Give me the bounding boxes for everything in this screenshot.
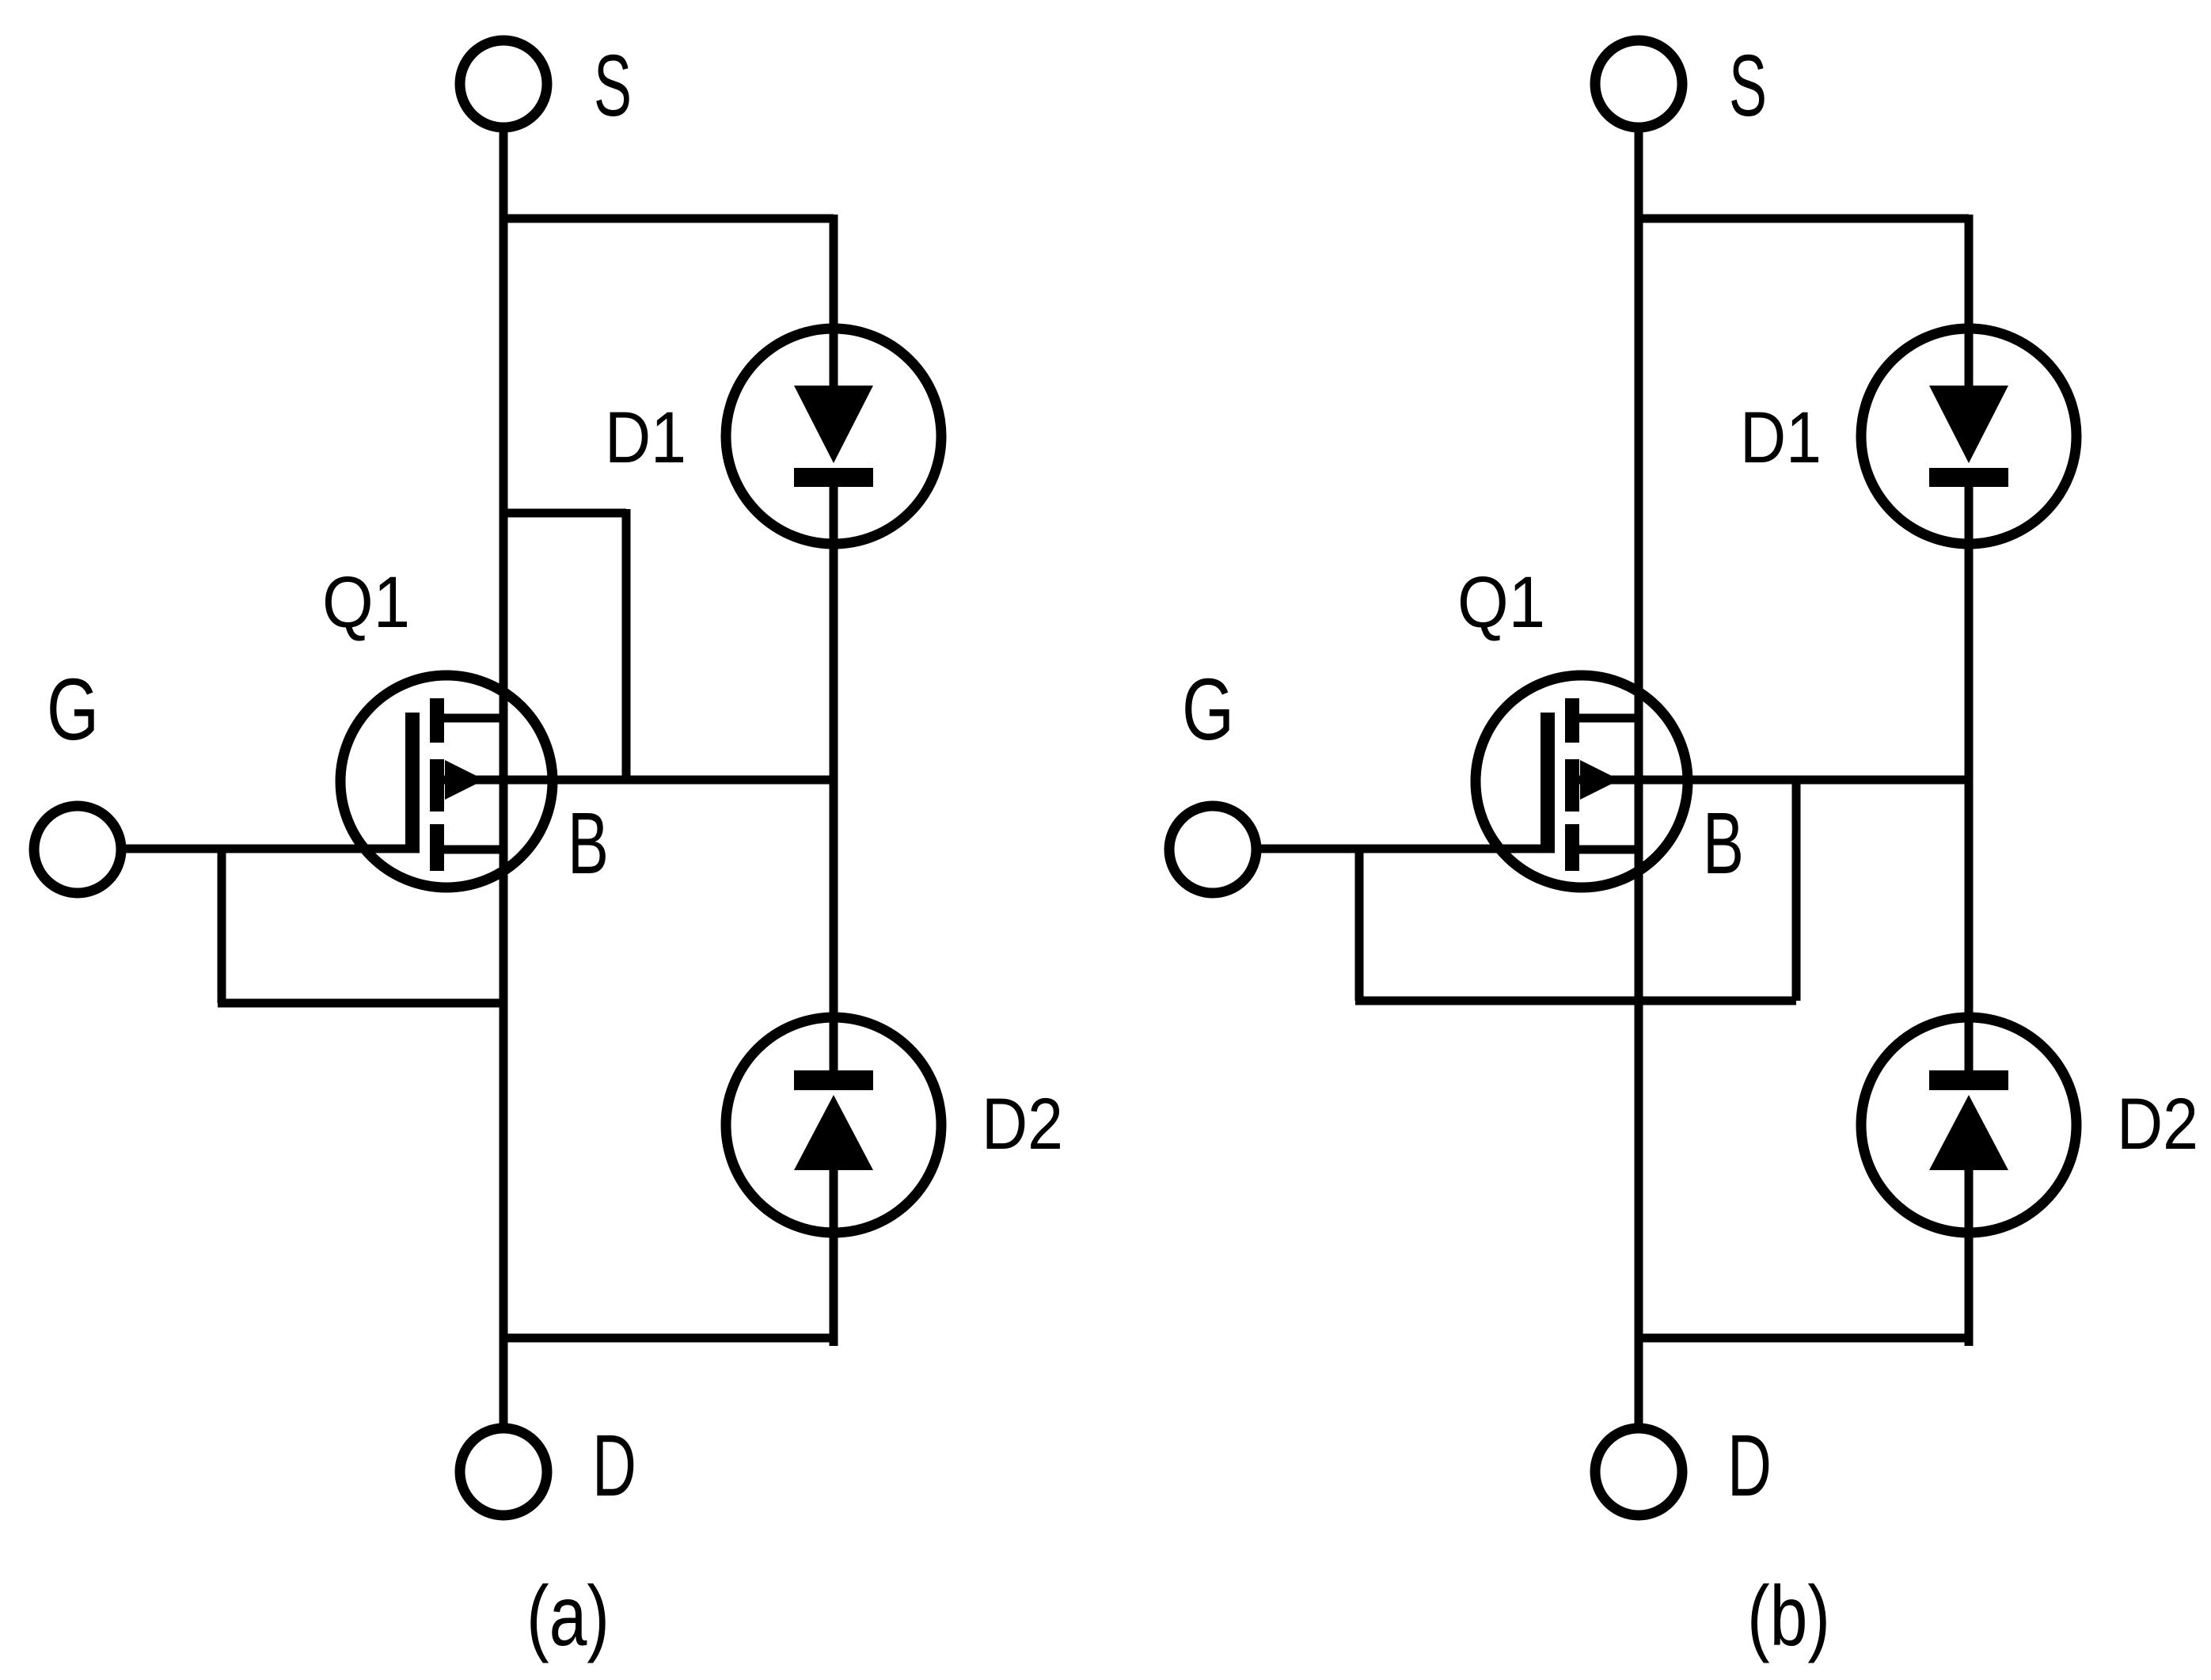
svg-text:(a): (a)	[526, 1568, 610, 1663]
svg-text:D2: D2	[982, 1084, 1063, 1165]
svg-text:D1: D1	[1740, 397, 1822, 478]
svg-text:D1: D1	[605, 397, 686, 478]
svg-text:D2: D2	[2117, 1084, 2198, 1165]
svg-text:G: G	[1182, 661, 1234, 758]
svg-text:B: B	[1703, 795, 1744, 892]
svg-text:Q1: Q1	[1457, 562, 1545, 643]
svg-text:G: G	[47, 661, 99, 758]
svg-text:D: D	[1727, 1417, 1772, 1515]
svg-text:(b): (b)	[1747, 1568, 1830, 1663]
svg-text:S: S	[594, 37, 632, 135]
svg-text:B: B	[568, 795, 609, 892]
svg-text:D: D	[592, 1417, 636, 1515]
svg-text:S: S	[1729, 37, 1767, 135]
svg-text:Q1: Q1	[322, 562, 410, 643]
